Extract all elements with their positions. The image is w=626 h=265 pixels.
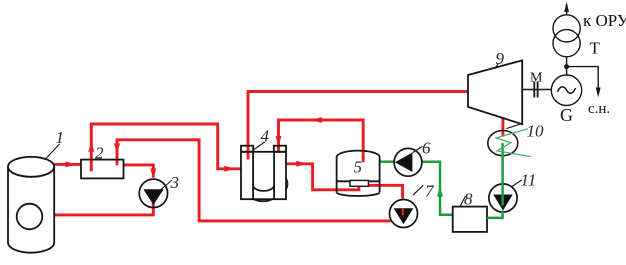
svg-text:4: 4: [261, 127, 270, 146]
svg-text:10: 10: [527, 122, 545, 141]
svg-text:11: 11: [521, 171, 537, 190]
svg-text:9: 9: [496, 49, 505, 68]
svg-text:G: G: [560, 105, 573, 125]
svg-text:8: 8: [464, 190, 473, 209]
svg-text:к ОРУ: к ОРУ: [583, 11, 626, 30]
svg-text:6: 6: [422, 138, 431, 157]
svg-text:с.н.: с.н.: [588, 101, 610, 117]
svg-text:2: 2: [95, 144, 104, 163]
svg-text:1: 1: [56, 128, 65, 147]
svg-text:3: 3: [170, 173, 180, 192]
svg-text:М: М: [530, 71, 543, 86]
svg-text:Т: Т: [590, 38, 601, 57]
svg-text:5: 5: [354, 158, 363, 177]
